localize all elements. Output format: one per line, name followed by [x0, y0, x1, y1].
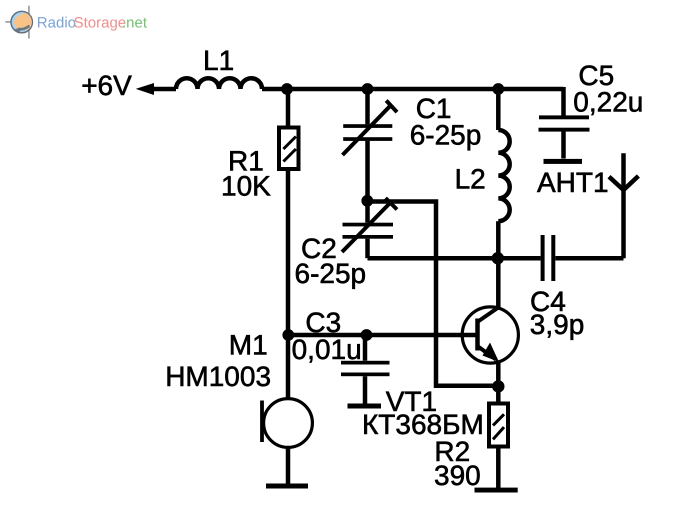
- svg-text:АНТ1: АНТ1: [537, 167, 609, 198]
- svg-text:.net: .net: [122, 15, 148, 32]
- svg-text:6-25p: 6-25p: [295, 258, 367, 289]
- svg-text:+6V: +6V: [81, 70, 132, 101]
- svg-text:L2: L2: [455, 164, 486, 195]
- svg-text:0,01u: 0,01u: [292, 334, 362, 365]
- svg-text:6-25p: 6-25p: [410, 119, 482, 150]
- svg-text:0,22u: 0,22u: [573, 87, 643, 118]
- svg-text:Storage: Storage: [74, 15, 127, 32]
- svg-text:HM1003: HM1003: [165, 361, 271, 392]
- svg-text:3,9p: 3,9p: [530, 309, 585, 340]
- svg-text:Radio: Radio: [37, 15, 76, 32]
- svg-text:10K: 10K: [221, 170, 271, 201]
- svg-text:M1: M1: [229, 330, 268, 361]
- svg-text:L1: L1: [203, 45, 234, 76]
- svg-text:390: 390: [434, 460, 481, 491]
